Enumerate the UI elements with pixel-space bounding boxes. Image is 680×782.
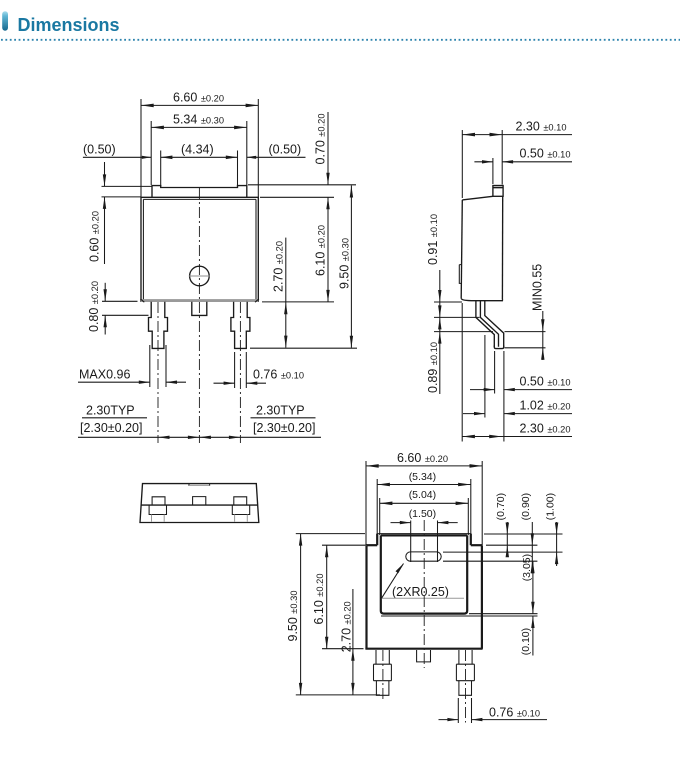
svg-text:[2.30±0.20]: [2.30±0.20] — [253, 421, 315, 435]
svg-text:6.10 ±0.20: 6.10 ±0.20 — [312, 573, 326, 624]
svg-text:(0.70): (0.70) — [495, 493, 507, 520]
svg-text:(1.50): (1.50) — [409, 508, 436, 520]
svg-text:(1.00): (1.00) — [545, 493, 557, 520]
svg-text:(5.34): (5.34) — [409, 471, 436, 483]
svg-text:(2XR0.25): (2XR0.25) — [392, 585, 449, 599]
svg-text:Dimensions: Dimensions — [18, 15, 120, 35]
svg-text:2.30TYP: 2.30TYP — [256, 404, 305, 418]
svg-text:0.60 ±0.20: 0.60 ±0.20 — [88, 211, 102, 262]
svg-text:2.30 ±0.20: 2.30 ±0.20 — [520, 422, 571, 436]
svg-text:(3.05): (3.05) — [521, 554, 533, 581]
svg-text:2.30TYP: 2.30TYP — [86, 404, 135, 418]
svg-text:[2.30±0.20]: [2.30±0.20] — [80, 421, 142, 435]
svg-text:(0.50): (0.50) — [269, 142, 302, 156]
svg-text:5.34 ±0.30: 5.34 ±0.30 — [173, 113, 224, 127]
svg-text:MIN0.55: MIN0.55 — [530, 264, 544, 311]
svg-text:(0.50): (0.50) — [83, 142, 116, 156]
svg-text:(5.04): (5.04) — [409, 489, 436, 501]
svg-text:0.89 ±0.10: 0.89 ±0.10 — [426, 342, 440, 393]
svg-text:2.70 ±0.20: 2.70 ±0.20 — [339, 601, 353, 652]
svg-text:0.80 ±0.20: 0.80 ±0.20 — [87, 281, 101, 332]
svg-text:0.91 ±0.10: 0.91 ±0.10 — [426, 214, 440, 265]
svg-text:(4.34): (4.34) — [181, 142, 214, 156]
svg-text:0.76 ±0.10: 0.76 ±0.10 — [489, 706, 540, 720]
svg-text:1.02 ±0.20: 1.02 ±0.20 — [520, 399, 571, 413]
svg-text:0.50 ±0.10: 0.50 ±0.10 — [520, 147, 571, 161]
svg-text:0.70 ±0.20: 0.70 ±0.20 — [313, 113, 327, 164]
svg-text:(0.90): (0.90) — [520, 493, 532, 520]
svg-text:2.30 ±0.10: 2.30 ±0.10 — [516, 120, 567, 134]
svg-text:9.50 ±0.30: 9.50 ±0.30 — [338, 238, 352, 289]
svg-text:6.60 ±0.20: 6.60 ±0.20 — [397, 451, 448, 465]
svg-text:MAX0.96: MAX0.96 — [79, 367, 130, 381]
svg-text:0.50 ±0.10: 0.50 ±0.10 — [520, 375, 571, 389]
svg-text:9.50 ±0.30: 9.50 ±0.30 — [286, 590, 300, 641]
svg-text:2.70 ±0.20: 2.70 ±0.20 — [272, 241, 286, 292]
svg-text:0.76 ±0.10: 0.76 ±0.10 — [253, 367, 304, 381]
svg-text:6.60 ±0.20: 6.60 ±0.20 — [173, 91, 224, 105]
svg-text:6.10 ±0.20: 6.10 ±0.20 — [313, 225, 327, 276]
svg-text:(0.10): (0.10) — [520, 628, 532, 655]
